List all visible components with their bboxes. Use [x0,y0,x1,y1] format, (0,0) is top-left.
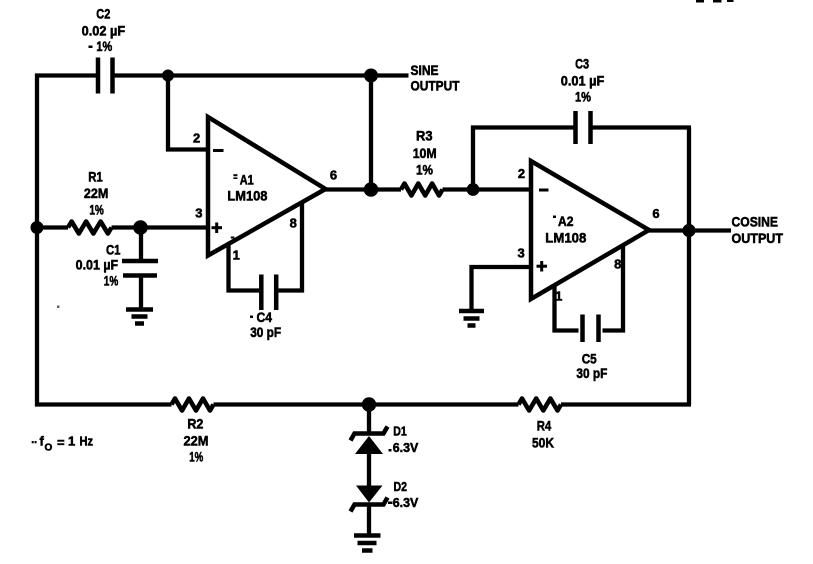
svg-text:LM108: LM108 [227,188,267,204]
svg-text:D1: D1 [393,424,407,439]
svg-text:0.01 µF: 0.01 µF [561,73,605,89]
svg-text:R3: R3 [416,128,433,144]
svg-text:R1: R1 [88,169,103,185]
svg-text:6.3V: 6.3V [393,495,419,510]
svg-text:3: 3 [195,206,202,221]
svg-text:=: = [57,435,65,450]
svg-text:1%: 1% [89,202,104,218]
svg-text:8: 8 [290,216,297,231]
svg-text:1: 1 [233,248,240,263]
svg-text:SINE: SINE [411,62,439,78]
svg-text:R2: R2 [187,416,203,432]
svg-text:30 pF: 30 pF [250,324,281,340]
svg-text:3: 3 [517,246,524,261]
svg-text:1%: 1% [575,89,591,105]
svg-text:1%: 1% [104,273,119,289]
svg-text:R4: R4 [537,418,552,434]
svg-text:COSINE: COSINE [732,214,779,230]
svg-text:22M: 22M [84,185,109,201]
svg-text:8: 8 [614,257,621,272]
svg-text:2: 2 [193,131,200,146]
svg-text:C2: C2 [96,6,110,22]
svg-text:30 pF: 30 pF [576,365,607,381]
svg-text:C3: C3 [575,56,589,72]
svg-text:OUTPUT: OUTPUT [411,78,460,94]
svg-text:A1: A1 [240,172,254,188]
svg-text:0.02 µF: 0.02 µF [82,23,126,39]
svg-text:6.3V: 6.3V [393,440,419,455]
svg-text:C4: C4 [256,309,272,325]
svg-text:1%: 1% [96,38,112,54]
svg-text:D2: D2 [393,479,407,494]
svg-text:1%: 1% [189,449,203,465]
svg-text:Hz: Hz [80,435,94,449]
svg-text:1: 1 [555,289,562,304]
svg-text:0.01 µF: 0.01 µF [76,257,119,273]
svg-text:O: O [45,443,53,454]
svg-text:A2: A2 [558,213,574,229]
svg-text:2: 2 [518,166,525,181]
svg-text:6: 6 [330,168,337,183]
svg-text:6: 6 [652,206,659,221]
svg-text:22M: 22M [184,433,209,449]
svg-text:10M: 10M [413,145,437,161]
svg-text:C1: C1 [106,242,121,258]
svg-text:LM108: LM108 [545,230,586,246]
svg-text:OUTPUT: OUTPUT [732,230,784,246]
svg-text:50K: 50K [532,435,554,451]
svg-text:1%: 1% [416,162,433,178]
svg-text:1: 1 [68,434,75,449]
